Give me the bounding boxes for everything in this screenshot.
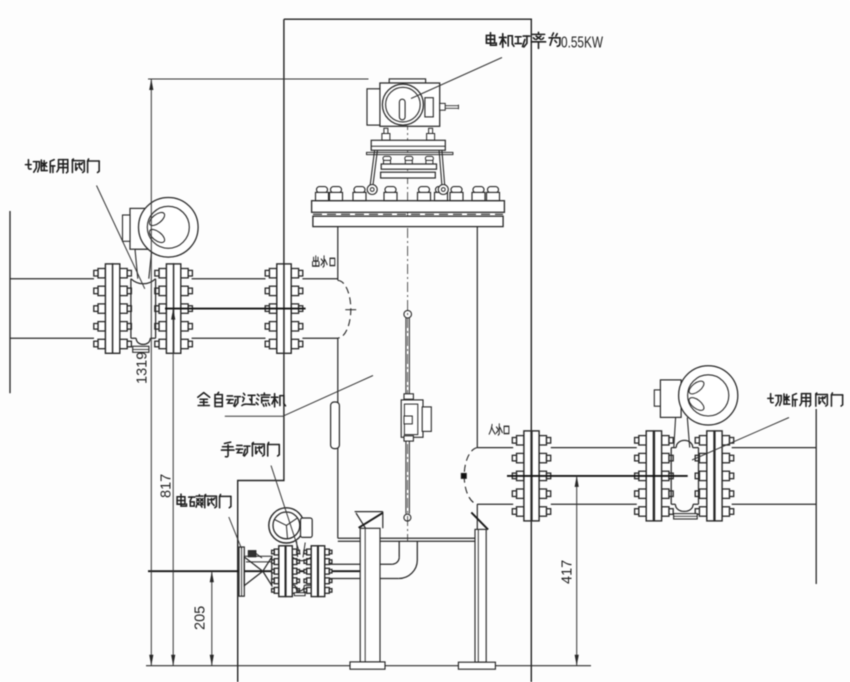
tank shell right wall [476,227,478,539]
shutoff valve 2 handwheel inner [688,375,729,416]
manual valve stem [297,541,306,557]
motor standoff bolt right [429,128,433,133]
motor face inner circle [386,87,421,122]
left flange pair 1 [98,269,105,278]
left pipe end break line [9,211,11,393]
shutoff valve 2 stem [674,417,690,447]
frame border stepped outline [238,19,532,682]
tank centerline (dash-dot axis) [407,84,409,541]
label solenoid valve [177,494,186,506]
shutoff valve 1 gearbox [130,208,149,249]
right pipe dark centerline [507,475,688,477]
manual handwheel spokes [275,518,298,539]
tank flange bolt row (9 bolts), [317,187,328,193]
manual valve body [293,557,311,591]
rod collar lower [404,436,413,441]
motor left block [367,89,380,125]
inlet apex black square [461,473,466,478]
right pipe end line [815,409,817,584]
outlet dome dashed arc [338,280,351,338]
label inlet port [489,425,495,435]
left flange pair 3 (at tank) [269,269,276,278]
tank shell left wall [337,227,339,539]
bracket bar upper [381,164,436,169]
bracket strut right [439,150,445,186]
solenoid valve bowtie [244,557,271,586]
shutoff valve 1 body [131,279,156,345]
extension line at motor top (y=79) [148,78,369,80]
internal rod upper section [406,318,410,394]
outlet apex tick [345,309,356,311]
dimension line 817 [172,309,174,666]
leader line motor [411,58,502,99]
motor standoff bolt left [384,128,388,133]
left flange pair 2 [159,269,166,278]
tank top flange lower plate [313,216,503,226]
motor junction box [425,98,433,117]
right flange pair A (at tank) [517,436,524,445]
leader line solenoid [229,517,242,549]
svg-text:417: 417 [560,560,576,584]
tank top flange upper plate [312,201,505,213]
internal rod lower section [406,441,410,513]
label shutoff valve left [25,160,39,173]
manual valve handwheel inner [273,512,300,539]
handwheel 2 petal lower [687,395,706,413]
drain flange pair 2 [307,549,312,555]
label manual valve [221,442,234,457]
bracket strut left [370,150,377,186]
motor shaft connector [440,103,446,110]
motor face slot [399,99,405,120]
shutoff valve 1 gearbox tab [123,215,131,241]
left leg column [360,528,380,662]
left leg gusset [355,512,383,529]
leader line manual valve [271,466,300,555]
gauge body inner box [404,404,417,435]
svg-text:0.55KW: 0.55KW [561,35,603,52]
motor main body [380,83,440,126]
drain vertical pipe from tank [399,541,417,560]
drain elbow outer arc [399,560,418,579]
bracket bolt 3 [425,156,433,160]
bracket bolt 1 [383,156,391,160]
left pipe top line [10,278,338,280]
right pipe top line [477,447,816,449]
right leg foot plate [458,662,495,669]
handwheel 1 petal lower [147,227,167,245]
svg-text:205: 205 [192,606,208,630]
internal rod top ball [404,310,412,318]
tank flange gasket dashed line [313,213,503,215]
gauge body right extension [422,407,431,432]
svg-text:1319: 1319 [135,352,151,384]
rod collar upper [404,394,413,399]
shutoff valve 1 handwheel inner [147,206,189,248]
right pipe bottom line [477,503,816,505]
shutoff valve 2 gearbox tab [654,390,660,406]
internal rod bottom ball [404,514,411,521]
drain dark centerline [148,570,360,572]
handwheel 2 petal upper [687,379,706,397]
handwheel 1 petal upper [147,210,167,228]
bracket lug left [367,185,377,195]
tank bottom double line [338,538,478,541]
shutoff valve 1 bottom bracket [133,346,149,352]
filter label underline [225,415,284,417]
leader line shutoff left [97,186,145,289]
shutoff valve 2 bottom bracket [674,514,698,519]
shutoff valve 1 handwheel rim [139,198,199,258]
right flange pair B [639,436,646,445]
solenoid valve actuator [244,555,271,557]
right leg column [475,529,486,662]
label filter name [198,393,210,406]
tank handhole rounded cover [331,402,340,449]
motor top cap [389,79,425,83]
bracket lug right [438,185,448,195]
drain elbow inner arc [392,557,399,564]
drain pipe horizontal [325,564,399,578]
motor mounting plate [371,140,445,150]
shutoff valve 2 handwheel rim [679,366,738,425]
dimension line 417 [576,476,578,666]
gauge small square [404,416,412,424]
shutoff valve 2 gearbox [660,380,681,418]
left pipe bottom line [10,337,338,339]
label outlet port [313,256,320,266]
bracket bolt 2 [405,156,413,160]
motor face outer circle [382,84,423,125]
right flange pair C [699,436,706,445]
leader line shutoff right [692,418,789,461]
label shutoff valve right [768,394,781,406]
shutoff valve 2 body [671,440,698,511]
svg-text:817: 817 [158,474,174,498]
dimension line 1319 [150,79,152,666]
left pipe dark centerline [165,308,306,310]
shutoff valve 1 stem [135,249,152,279]
inlet dome dashed arc [464,448,477,505]
manual valve bottom bracket [294,593,305,596]
bracket thin plate [367,152,453,154]
drain end flange plate [239,547,244,596]
dimension line 205 [211,571,213,666]
right leg gusset [471,512,488,529]
gauge body outer box [401,400,423,437]
manual valve handwheel rim [269,508,304,543]
left leg foot plate [350,662,385,669]
manual valve side box [301,518,313,537]
dimension baseline (ground line) [146,665,591,667]
leader line filter [284,376,373,416]
bracket bar lower [381,172,436,178]
drain flange pair 1 [274,549,279,555]
label motor power (CJK part) [486,33,496,46]
